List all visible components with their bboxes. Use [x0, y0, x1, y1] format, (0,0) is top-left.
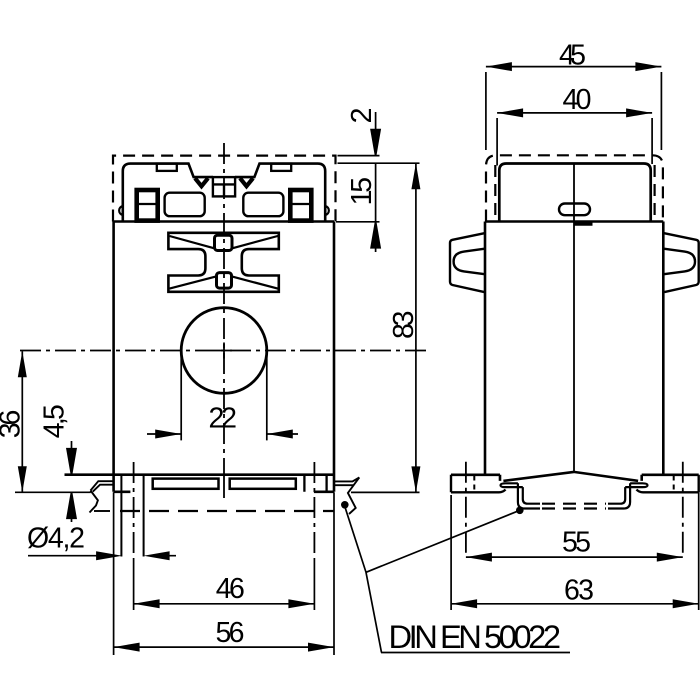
DIN EN 50022 leader lines	[345, 507, 520, 653]
dim diameter 4,2 arrows	[96, 551, 170, 560]
svg-text:45: 45	[559, 40, 586, 72]
dim 36 line	[21, 351, 23, 492]
side slot centerline left	[465, 462, 467, 557]
dim 63 line	[451, 603, 699, 605]
terminal block left edge bump	[119, 206, 123, 215]
terminal screw bold rect left	[137, 190, 158, 221]
dim 83 arrows	[411, 163, 420, 492]
side top housing	[499, 164, 650, 222]
side foot plate right	[637, 475, 699, 493]
dim 56 line	[114, 646, 334, 648]
spring clip fold lines	[170, 236, 278, 289]
spring clip bottom square	[217, 273, 232, 289]
dim 83 bottom extension	[351, 491, 420, 493]
svg-text:55: 55	[562, 527, 591, 559]
svg-text:36: 36	[0, 410, 27, 439]
svg-text:Ø4,2: Ø4,2	[27, 523, 85, 555]
leader dot front view	[341, 501, 349, 509]
dim 36 bottom extension and rail bottom	[15, 491, 91, 493]
FRONT-VIEW	[20, 143, 428, 610]
svg-text:4,5: 4,5	[39, 404, 71, 438]
dim 55 line	[466, 556, 683, 558]
dim 46 arrows	[134, 599, 315, 608]
dim 22 extension lines	[181, 352, 267, 440]
dim 4,5 bottom arrow	[67, 492, 76, 522]
dim 45 extension lines	[486, 72, 662, 150]
side foot plate left	[451, 475, 506, 493]
terminal window right	[243, 193, 283, 217]
dim 4,5 top arrow	[67, 441, 76, 475]
svg-text:40: 40	[563, 84, 592, 116]
DIN rail stub left	[90, 481, 114, 512]
dim 45 line	[486, 66, 662, 68]
dim 63 extension lines	[451, 492, 699, 610]
dim 15 bottom arrow	[371, 222, 380, 252]
terminal block top notch left	[157, 164, 177, 171]
DIN rail hidden bottom dashed	[120, 510, 334, 512]
dim 46 line	[134, 603, 315, 605]
housing bottom tab mark	[575, 222, 593, 225]
dim 63 arrows	[451, 599, 699, 608]
SIDE-VIEW	[450, 155, 699, 557]
foot vertical ribs right	[304, 475, 326, 492]
primary hole circle	[181, 308, 267, 394]
svg-text:56: 56	[216, 617, 245, 649]
DIN EN 50022 underline	[381, 652, 570, 654]
DIN rail hidden floor dashed	[542, 504, 606, 509]
horizontal centerline front	[20, 350, 428, 352]
screw slot V-mark left	[195, 178, 208, 186]
side body outline	[451, 222, 699, 481]
svg-text:22: 22	[208, 403, 237, 435]
dim 45 arrows	[486, 62, 662, 71]
dim 40 arrows	[497, 108, 652, 117]
side center part line	[573, 164, 575, 472]
DIN rail channel wall left	[518, 483, 540, 508]
svg-text:2: 2	[346, 108, 378, 124]
terminal window left	[165, 193, 205, 217]
dim 83 line	[415, 163, 417, 492]
svg-text:46: 46	[216, 573, 245, 605]
dim 36 arrows	[18, 351, 27, 492]
DIN rail channel wall right	[608, 483, 630, 508]
svg-text:DIN EN 50022: DIN EN 50022	[389, 618, 562, 655]
DIN rail flange tip left	[501, 483, 523, 487]
spring clip bow-tie outline	[168, 233, 278, 292]
leader dot side view	[516, 507, 524, 515]
hidden slot end dashed left	[473, 476, 475, 492]
dim 15 line	[375, 163, 377, 222]
hidden slot end dashed right	[673, 476, 675, 492]
terminal block right edge bump	[325, 206, 329, 215]
dim 15 extension line	[336, 221, 380, 223]
dim diameter 4,2 line	[28, 555, 176, 557]
dim 40 extension lines	[497, 118, 652, 166]
dim 2 extension lines	[338, 156, 420, 164]
screw slot V-mark right	[240, 178, 253, 186]
dim 22 line	[147, 433, 298, 435]
side fixing wing right	[663, 233, 699, 292]
dim 56 arrows	[114, 643, 334, 652]
side dashed raised inner edges	[495, 165, 654, 222]
dim 22 arrows	[155, 430, 293, 439]
foot slot rectangle right	[230, 479, 296, 489]
spring clip top square	[215, 235, 233, 250]
DIN rail flange tip right	[625, 483, 647, 487]
dim 55 arrows	[466, 553, 683, 562]
side fixing wing left	[450, 233, 486, 292]
svg-text:63: 63	[564, 575, 594, 607]
svg-text:83: 83	[388, 311, 420, 340]
body outline front view	[65, 222, 335, 492]
screw slot edges left	[121, 475, 143, 557]
DIN rail stub right	[334, 477, 359, 514]
svg-text:15: 15	[346, 177, 378, 206]
vertical centerline front	[223, 143, 225, 455]
side housing pill slot	[559, 204, 590, 216]
side slot centerline right	[682, 462, 684, 557]
slot centerline left	[133, 462, 135, 558]
dim 56 extension lines	[114, 492, 334, 655]
terminal block outline front view	[123, 164, 325, 222]
side dashed raised envelope	[486, 155, 663, 221]
dim 40 line	[497, 112, 652, 114]
dashed max-envelope front view	[113, 156, 336, 222]
hole center cross	[216, 343, 232, 359]
foot slot rectangle left	[153, 479, 219, 489]
center screw block	[213, 177, 235, 196]
terminal block top notch right	[271, 164, 291, 171]
slot centerline right	[313, 462, 315, 558]
terminal screw bold rect right	[290, 190, 311, 221]
dim 2 line and arrow	[371, 112, 380, 156]
